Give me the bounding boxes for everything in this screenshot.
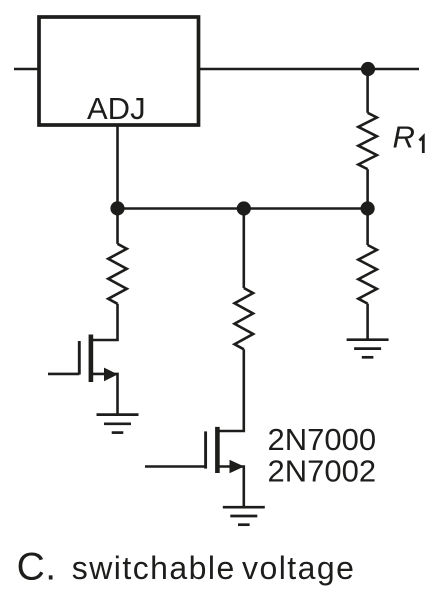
svg-text:2N7000: 2N7000 xyxy=(268,422,377,457)
svg-text:R: R xyxy=(393,120,415,155)
svg-text:ADJ: ADJ xyxy=(87,91,146,126)
svg-text:2N7002: 2N7002 xyxy=(268,453,377,488)
svg-text:.: . xyxy=(45,546,56,589)
svg-text:C: C xyxy=(17,546,45,589)
svg-text:switchable voltage: switchable voltage xyxy=(72,550,356,586)
